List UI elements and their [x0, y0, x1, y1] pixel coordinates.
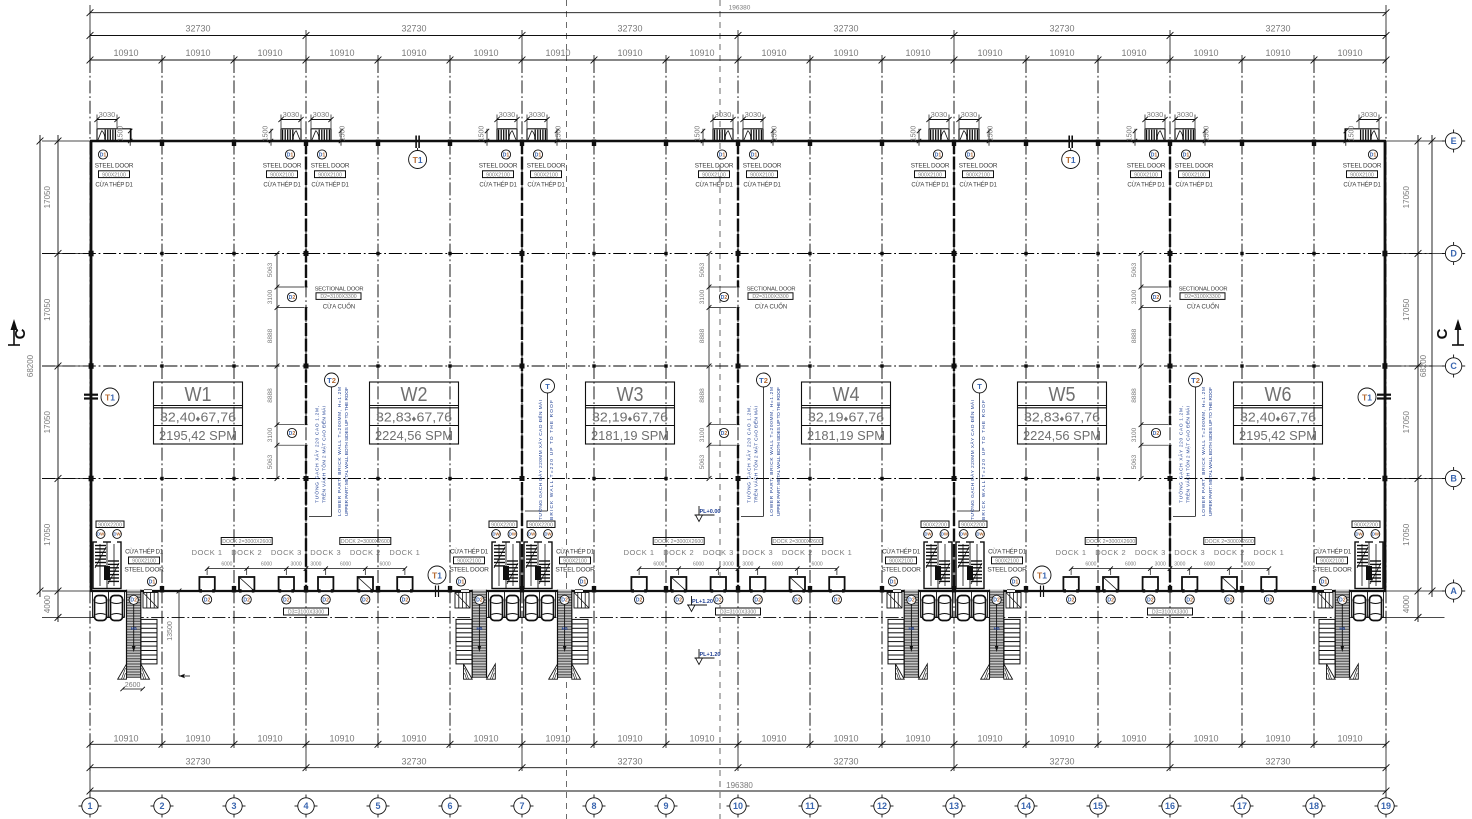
svg-text:D2: D2 — [204, 597, 211, 603]
svg-text:900X2100: 900X2100 — [1320, 559, 1344, 565]
svg-text:3100: 3100 — [699, 427, 706, 442]
svg-text:6000: 6000 — [261, 562, 272, 568]
svg-text:DOCK 2: DOCK 2 — [663, 548, 694, 557]
svg-text:C: C — [1434, 328, 1451, 339]
svg-text:D2=3100X3300: D2=3100X3300 — [752, 294, 788, 300]
svg-text:6: 6 — [447, 801, 452, 811]
svg-text:STEEL DOOR: STEEL DOOR — [881, 567, 921, 574]
svg-text:D1: D1 — [503, 152, 510, 158]
svg-text:DW: DW — [509, 532, 517, 537]
svg-text:D2: D2 — [908, 598, 915, 604]
svg-text:D2: D2 — [1147, 597, 1154, 603]
svg-text:H5: H5 — [562, 626, 568, 631]
svg-text:6000: 6000 — [772, 562, 783, 568]
svg-text:17050: 17050 — [43, 523, 52, 546]
svg-text:CỪA THÉP D1: CỪA THÉP D1 — [988, 548, 1027, 555]
svg-text:CỪA THÉP D1: CỪA THÉP D1 — [1313, 548, 1352, 555]
svg-text:32730: 32730 — [833, 24, 858, 34]
svg-text:3030: 3030 — [283, 110, 300, 119]
svg-text:1500: 1500 — [340, 126, 347, 142]
svg-text:DOCK 2: DOCK 2 — [1214, 548, 1245, 557]
svg-text:DW: DW — [113, 532, 121, 537]
svg-text:D2: D2 — [1186, 597, 1193, 603]
svg-text:5063: 5063 — [699, 262, 706, 277]
svg-text:D2: D2 — [675, 597, 682, 603]
svg-text:6000: 6000 — [1244, 562, 1255, 568]
svg-text:10910: 10910 — [473, 48, 498, 58]
svg-text:2181,19 SPM: 2181,19 SPM — [807, 429, 885, 443]
svg-text:D2: D2 — [283, 597, 290, 603]
svg-text:196380: 196380 — [726, 781, 753, 790]
svg-text:4: 4 — [303, 801, 308, 811]
svg-text:6000: 6000 — [1125, 562, 1136, 568]
svg-text:CỪA THÉP D1: CỪA THÉP D1 — [695, 182, 733, 189]
svg-text:1500: 1500 — [772, 126, 779, 142]
svg-text:D2: D2 — [721, 295, 728, 301]
svg-text:10910: 10910 — [257, 734, 282, 744]
svg-text:D2: D2 — [754, 597, 761, 603]
svg-text:10910: 10910 — [689, 48, 714, 58]
svg-text:900X2200: 900X2200 — [491, 522, 515, 528]
svg-text:5063: 5063 — [699, 454, 706, 469]
svg-text:D2: D2 — [130, 598, 137, 604]
svg-text:SECTIONAL DOOR: SECTIONAL DOOR — [747, 287, 796, 293]
svg-text:H5: H5 — [1339, 626, 1345, 631]
svg-text:D2: D2 — [1153, 431, 1160, 437]
svg-text:13: 13 — [949, 801, 959, 811]
svg-text:TƯỜNG GẠCH XÂY 220 CAO 1.2M,: TƯỜNG GẠCH XÂY 220 CAO 1.2M, — [1178, 406, 1185, 503]
svg-text:DW: DW — [941, 532, 949, 537]
svg-text:6000: 6000 — [380, 562, 391, 568]
svg-text:W4: W4 — [833, 384, 860, 406]
svg-text:8888: 8888 — [1131, 328, 1138, 343]
svg-text:D2: D2 — [636, 597, 643, 603]
svg-text:8888: 8888 — [699, 388, 706, 403]
svg-text:2: 2 — [159, 801, 164, 811]
svg-text:H5: H5 — [131, 626, 137, 631]
svg-text:6000: 6000 — [653, 562, 664, 568]
svg-text:5063: 5063 — [267, 454, 274, 469]
svg-text:68200: 68200 — [1419, 354, 1428, 377]
svg-text:CỪA THÉP D1: CỪA THÉP D1 — [95, 182, 133, 189]
svg-text:DOCK 1: DOCK 1 — [192, 548, 223, 557]
svg-text:DOCK 2: DOCK 2 — [782, 548, 813, 557]
svg-text:900X2200: 900X2200 — [961, 522, 985, 528]
svg-text:3000: 3000 — [742, 562, 753, 568]
svg-text:19: 19 — [1381, 801, 1391, 811]
svg-text:5: 5 — [375, 801, 380, 811]
svg-text:STEEL DOOR: STEEL DOOR — [449, 567, 489, 574]
svg-text:T1: T1 — [432, 570, 442, 580]
svg-text:10910: 10910 — [1337, 48, 1362, 58]
svg-text:900X2100: 900X2100 — [563, 559, 587, 565]
svg-text:900X2200: 900X2200 — [1354, 522, 1378, 528]
svg-text:D2: D2 — [289, 431, 296, 437]
svg-text:H5: H5 — [908, 626, 914, 631]
svg-text:17050: 17050 — [43, 298, 52, 321]
svg-text:D2: D2 — [1107, 597, 1114, 603]
svg-text:D2: D2 — [402, 597, 409, 603]
svg-text:D1: D1 — [319, 152, 326, 158]
svg-text:1500: 1500 — [695, 126, 702, 142]
svg-text:8888: 8888 — [699, 328, 706, 343]
svg-text:1500: 1500 — [479, 126, 486, 142]
svg-text:STEEL DOOR: STEEL DOOR — [555, 567, 595, 574]
svg-text:D1: D1 — [100, 152, 107, 158]
svg-text:B: B — [1450, 474, 1457, 484]
svg-text:D1: D1 — [1370, 152, 1377, 158]
svg-text:32730: 32730 — [1265, 757, 1290, 767]
svg-text:D2: D2 — [1226, 597, 1233, 603]
svg-text:10910: 10910 — [689, 734, 714, 744]
svg-text:D3=3100X3300: D3=3100X3300 — [720, 610, 756, 616]
svg-text:TƯỜNG GẠCH XÂY 220 CAO 1.2M,: TƯỜNG GẠCH XÂY 220 CAO 1.2M, — [314, 406, 321, 503]
svg-text:10910: 10910 — [473, 734, 498, 744]
svg-text:1500: 1500 — [1348, 126, 1355, 142]
svg-text:T: T — [545, 382, 550, 391]
svg-text:8888: 8888 — [267, 388, 274, 403]
svg-text:6000: 6000 — [340, 562, 351, 568]
svg-text:SECTIONAL DOOR: SECTIONAL DOOR — [315, 287, 364, 293]
svg-text:10910: 10910 — [1049, 734, 1074, 744]
svg-text:DOCK 2=3000X2600: DOCK 2=3000X2600 — [1086, 539, 1135, 545]
svg-text:T1: T1 — [105, 392, 115, 402]
svg-text:6000: 6000 — [1204, 562, 1215, 568]
svg-text:E: E — [1451, 136, 1457, 146]
svg-text:900X2200: 900X2200 — [529, 522, 553, 528]
svg-text:32730: 32730 — [1265, 24, 1290, 34]
svg-text:PL+1.20: PL+1.20 — [692, 599, 713, 605]
svg-text:900X2200: 900X2200 — [923, 522, 947, 528]
svg-text:STEEL DOOR: STEEL DOOR — [743, 163, 782, 170]
svg-text:W5: W5 — [1049, 384, 1076, 406]
svg-text:17050: 17050 — [43, 411, 52, 434]
svg-text:D2: D2 — [322, 597, 329, 603]
svg-text:STEEL DOOR: STEEL DOOR — [311, 163, 350, 170]
svg-text:D2: D2 — [362, 597, 369, 603]
svg-text:10910: 10910 — [257, 48, 282, 58]
svg-text:DOCK 1: DOCK 1 — [1253, 548, 1284, 557]
svg-text:3100: 3100 — [1131, 427, 1138, 442]
svg-text:D1: D1 — [535, 152, 542, 158]
svg-text:2224,56 SPM: 2224,56 SPM — [375, 429, 453, 443]
svg-text:17: 17 — [1237, 801, 1247, 811]
svg-text:1500: 1500 — [263, 126, 270, 142]
svg-text:DOCK 2=3000X2600: DOCK 2=3000X2600 — [773, 539, 822, 545]
svg-text:D: D — [1450, 249, 1457, 259]
svg-text:DW: DW — [1372, 532, 1380, 537]
svg-text:D2: D2 — [561, 598, 568, 604]
svg-text:D2: D2 — [1339, 598, 1346, 604]
svg-text:DOCK 1: DOCK 1 — [624, 548, 655, 557]
svg-text:10910: 10910 — [113, 48, 138, 58]
svg-text:10910: 10910 — [617, 734, 642, 744]
svg-text:W2: W2 — [401, 384, 428, 406]
svg-text:8888: 8888 — [1131, 388, 1138, 403]
svg-text:3100: 3100 — [267, 427, 274, 442]
svg-text:D3=3100X3300: D3=3100X3300 — [1152, 610, 1188, 616]
svg-text:D3=3100X3300: D3=3100X3300 — [288, 610, 324, 616]
svg-text:T2: T2 — [327, 376, 336, 385]
svg-text:2195,42 SPM: 2195,42 SPM — [159, 429, 237, 443]
svg-text:DOCK 3: DOCK 3 — [703, 548, 734, 557]
svg-text:T1: T1 — [1037, 570, 1047, 580]
svg-text:68200: 68200 — [26, 354, 35, 377]
svg-text:32,83♦67,76: 32,83♦67,76 — [376, 411, 452, 425]
svg-text:DOCK 2=3000X2600: DOCK 2=3000X2600 — [654, 539, 703, 545]
svg-text:10910: 10910 — [977, 734, 1002, 744]
svg-text:DW: DW — [528, 532, 536, 537]
svg-text:3030: 3030 — [529, 110, 546, 119]
svg-text:D2: D2 — [476, 598, 483, 604]
svg-text:PL+1.20: PL+1.20 — [700, 652, 721, 658]
svg-text:DW: DW — [492, 532, 500, 537]
svg-text:D1: D1 — [1321, 579, 1328, 585]
svg-text:13500: 13500 — [167, 621, 174, 641]
svg-text:T1: T1 — [1066, 155, 1076, 165]
svg-text:2181,19 SPM: 2181,19 SPM — [591, 429, 669, 443]
svg-text:DOCK 2: DOCK 2 — [350, 548, 381, 557]
svg-text:196380: 196380 — [729, 5, 751, 12]
svg-text:900X2100: 900X2100 — [132, 559, 156, 565]
svg-text:10910: 10910 — [905, 48, 930, 58]
svg-text:10910: 10910 — [401, 734, 426, 744]
svg-text:DOCK 3: DOCK 3 — [1135, 548, 1166, 557]
svg-text:STEEL DOOR: STEEL DOOR — [95, 163, 134, 170]
svg-text:STEEL DOOR: STEEL DOOR — [1312, 567, 1352, 574]
svg-text:3030: 3030 — [1361, 110, 1378, 119]
svg-text:D2: D2 — [993, 598, 1000, 604]
svg-text:16: 16 — [1165, 801, 1175, 811]
svg-text:32730: 32730 — [1049, 24, 1074, 34]
svg-text:W1: W1 — [185, 384, 212, 406]
svg-text:4000: 4000 — [43, 595, 52, 613]
svg-text:10910: 10910 — [1193, 48, 1218, 58]
svg-text:D2: D2 — [794, 597, 801, 603]
svg-text:32,83♦67,76: 32,83♦67,76 — [1024, 411, 1100, 425]
svg-text:D1: D1 — [1151, 152, 1158, 158]
svg-text:DW: DW — [960, 532, 968, 537]
svg-text:900X2100: 900X2100 — [534, 172, 558, 178]
svg-text:15: 15 — [1093, 801, 1103, 811]
svg-text:CỪA CUỐN: CỪA CUỐN — [1187, 304, 1219, 311]
svg-text:3100: 3100 — [699, 289, 706, 304]
svg-text:1500: 1500 — [1127, 126, 1134, 142]
svg-text:STEEL DOOR: STEEL DOOR — [263, 163, 302, 170]
svg-text:STEEL DOOR: STEEL DOOR — [1175, 163, 1214, 170]
svg-text:10910: 10910 — [545, 734, 570, 744]
svg-text:D1: D1 — [580, 579, 587, 585]
svg-text:CỪA THÉP D1: CỪA THÉP D1 — [479, 182, 517, 189]
svg-text:3030: 3030 — [1147, 110, 1164, 119]
svg-text:10910: 10910 — [185, 734, 210, 744]
svg-text:CỪA THÉP D1: CỪA THÉP D1 — [527, 182, 565, 189]
svg-text:10910: 10910 — [833, 48, 858, 58]
svg-text:1500: 1500 — [988, 126, 995, 142]
svg-text:900X2200: 900X2200 — [98, 522, 122, 528]
svg-text:D2: D2 — [289, 295, 296, 301]
svg-text:32730: 32730 — [617, 757, 642, 767]
svg-text:10910: 10910 — [761, 48, 786, 58]
svg-text:SECTIONAL DOOR: SECTIONAL DOOR — [1179, 287, 1228, 293]
svg-text:3030: 3030 — [99, 110, 116, 119]
svg-text:T2: T2 — [759, 376, 768, 385]
svg-text:DOCK 2: DOCK 2 — [1095, 548, 1126, 557]
svg-text:10910: 10910 — [761, 734, 786, 744]
svg-text:TƯỜNG GẠCH XÂY 220 CAO 1.2M,: TƯỜNG GẠCH XÂY 220 CAO 1.2M, — [746, 406, 753, 503]
svg-text:D1: D1 — [719, 152, 726, 158]
svg-text:900X2100: 900X2100 — [457, 559, 481, 565]
svg-text:DW: DW — [924, 532, 932, 537]
svg-text:LOWER PART: BRICK WALL T=200MM: LOWER PART: BRICK WALL T=200MM, H=1.2M — [1201, 387, 1207, 516]
svg-text:10910: 10910 — [1193, 734, 1218, 744]
svg-text:UPPER PART: METAL WALL BOTH SI: UPPER PART: METAL WALL BOTH SIDES UP TO … — [1208, 387, 1214, 516]
svg-text:10910: 10910 — [905, 734, 930, 744]
svg-text:900X2100: 900X2100 — [918, 172, 942, 178]
svg-text:32730: 32730 — [401, 757, 426, 767]
svg-text:2600: 2600 — [125, 682, 141, 689]
svg-text:STEEL DOOR: STEEL DOOR — [479, 163, 518, 170]
svg-text:D2=3100X3300: D2=3100X3300 — [320, 294, 356, 300]
svg-text:10910: 10910 — [185, 48, 210, 58]
svg-text:12: 12 — [877, 801, 887, 811]
svg-text:CỪA THÉP D1: CỪA THÉP D1 — [450, 548, 489, 555]
svg-text:D1: D1 — [751, 152, 758, 158]
svg-text:17050: 17050 — [1402, 298, 1411, 321]
svg-text:3000: 3000 — [1174, 562, 1185, 568]
svg-text:D1: D1 — [1183, 152, 1190, 158]
svg-text:3100: 3100 — [1131, 289, 1138, 304]
svg-text:3000: 3000 — [1155, 562, 1166, 568]
svg-text:D2: D2 — [1153, 295, 1160, 301]
svg-text:10910: 10910 — [1121, 734, 1146, 744]
svg-text:7: 7 — [519, 801, 524, 811]
svg-text:DOCK 3: DOCK 3 — [271, 548, 302, 557]
svg-text:5063: 5063 — [1131, 454, 1138, 469]
svg-text:CỪA THÉP D1: CỪA THÉP D1 — [882, 548, 921, 555]
svg-text:CỪA THÉP D1: CỪA THÉP D1 — [311, 182, 349, 189]
svg-text:PL+0.00: PL+0.00 — [700, 509, 721, 515]
svg-text:11: 11 — [805, 801, 815, 811]
svg-text:1500: 1500 — [911, 126, 918, 142]
svg-text:DW: DW — [97, 532, 105, 537]
svg-text:17050: 17050 — [43, 186, 52, 209]
svg-text:10910: 10910 — [545, 48, 570, 58]
svg-text:900X2100: 900X2100 — [318, 172, 342, 178]
svg-text:3030: 3030 — [745, 110, 762, 119]
svg-text:1500: 1500 — [1204, 126, 1211, 142]
svg-text:32730: 32730 — [401, 24, 426, 34]
svg-text:D2: D2 — [1266, 597, 1273, 603]
svg-text:D1: D1 — [287, 152, 294, 158]
svg-text:LOWER PART: BRICK WALL T=200MM: LOWER PART: BRICK WALL T=200MM, H=1.2M — [337, 387, 343, 516]
svg-text:T1: T1 — [413, 155, 423, 165]
svg-text:W3: W3 — [617, 384, 644, 406]
svg-text:900X2100: 900X2100 — [966, 172, 990, 178]
svg-text:CỪA THÉP D1: CỪA THÉP D1 — [743, 182, 781, 189]
svg-text:3000: 3000 — [291, 562, 302, 568]
svg-text:D2=3100X3300: D2=3100X3300 — [1184, 294, 1220, 300]
svg-text:900X2100: 900X2100 — [486, 172, 510, 178]
svg-text:STEEL DOOR: STEEL DOOR — [911, 163, 950, 170]
svg-text:17050: 17050 — [1402, 186, 1411, 209]
svg-text:900X2100: 900X2100 — [102, 172, 126, 178]
svg-text:8888: 8888 — [267, 328, 274, 343]
svg-text:W6: W6 — [1265, 384, 1292, 406]
svg-text:DOCK 2=3000X2600: DOCK 2=3000X2600 — [1205, 539, 1254, 545]
svg-text:6000: 6000 — [693, 562, 704, 568]
svg-text:STEEL DOOR: STEEL DOOR — [959, 163, 998, 170]
svg-text:DOCK 2: DOCK 2 — [231, 548, 262, 557]
svg-text:10910: 10910 — [617, 48, 642, 58]
svg-text:CỪA THÉP D1: CỪA THÉP D1 — [1343, 182, 1381, 189]
svg-text:900X2100: 900X2100 — [1182, 172, 1206, 178]
svg-text:H5: H5 — [476, 626, 482, 631]
svg-text:CỪA CUỐN: CỪA CUỐN — [323, 304, 355, 311]
svg-text:900X2100: 900X2100 — [702, 172, 726, 178]
svg-text:10910: 10910 — [977, 48, 1002, 58]
svg-text:C: C — [1450, 361, 1457, 371]
svg-text:10: 10 — [733, 801, 743, 811]
svg-text:900X2100: 900X2100 — [750, 172, 774, 178]
svg-text:TƯỜNG GẠCH DÀY 220MM XÂY CAO Đ: TƯỜNG GẠCH DÀY 220MM XÂY CAO ĐẾN MÁI — [537, 400, 544, 520]
svg-text:LOWER PART: BRICK WALL T=200MM: LOWER PART: BRICK WALL T=200MM, H=1.2M — [769, 387, 775, 516]
svg-text:DW: DW — [1355, 532, 1363, 537]
svg-text:3030: 3030 — [931, 110, 948, 119]
svg-text:10910: 10910 — [1265, 48, 1290, 58]
svg-text:32730: 32730 — [185, 24, 210, 34]
svg-text:900X2100: 900X2100 — [995, 559, 1019, 565]
svg-text:T1: T1 — [1362, 392, 1372, 402]
svg-text:2195,42 SPM: 2195,42 SPM — [1239, 429, 1317, 443]
svg-text:3: 3 — [231, 801, 236, 811]
svg-text:STEEL DOOR: STEEL DOOR — [987, 567, 1027, 574]
svg-text:CỪA THÉP D1: CỪA THÉP D1 — [959, 182, 997, 189]
svg-text:10910: 10910 — [401, 48, 426, 58]
svg-text:DW: DW — [544, 532, 552, 537]
svg-text:9: 9 — [663, 801, 668, 811]
svg-text:DW: DW — [976, 532, 984, 537]
svg-text:DOCK 3: DOCK 3 — [1174, 548, 1205, 557]
svg-text:CỪA THÉP D1: CỪA THÉP D1 — [1175, 182, 1213, 189]
svg-text:1500: 1500 — [118, 126, 125, 142]
svg-text:D1: D1 — [967, 152, 974, 158]
svg-text:D1: D1 — [458, 579, 465, 585]
svg-text:14: 14 — [1021, 801, 1031, 811]
svg-text:17050: 17050 — [1402, 523, 1411, 546]
svg-text:T: T — [977, 382, 982, 391]
svg-text:D1: D1 — [890, 579, 897, 585]
svg-text:18: 18 — [1309, 801, 1319, 811]
svg-text:5063: 5063 — [1131, 262, 1138, 277]
svg-text:10910: 10910 — [1121, 48, 1146, 58]
svg-text:32,19♦67,76: 32,19♦67,76 — [808, 411, 884, 425]
svg-text:STEEL DOOR: STEEL DOOR — [695, 163, 734, 170]
svg-text:10910: 10910 — [833, 734, 858, 744]
svg-text:STEEL DOOR: STEEL DOOR — [527, 163, 566, 170]
svg-text:5063: 5063 — [267, 262, 274, 277]
svg-text:17050: 17050 — [1402, 411, 1411, 434]
svg-text:10910: 10910 — [329, 734, 354, 744]
svg-text:3100: 3100 — [267, 289, 274, 304]
svg-text:DOCK 1: DOCK 1 — [1056, 548, 1087, 557]
svg-text:D2: D2 — [1068, 597, 1075, 603]
svg-text:DOCK 1: DOCK 1 — [821, 548, 852, 557]
svg-text:1500: 1500 — [556, 126, 563, 142]
svg-text:A: A — [1450, 586, 1457, 596]
svg-text:C: C — [12, 328, 29, 339]
svg-text:900X2100: 900X2100 — [270, 172, 294, 178]
